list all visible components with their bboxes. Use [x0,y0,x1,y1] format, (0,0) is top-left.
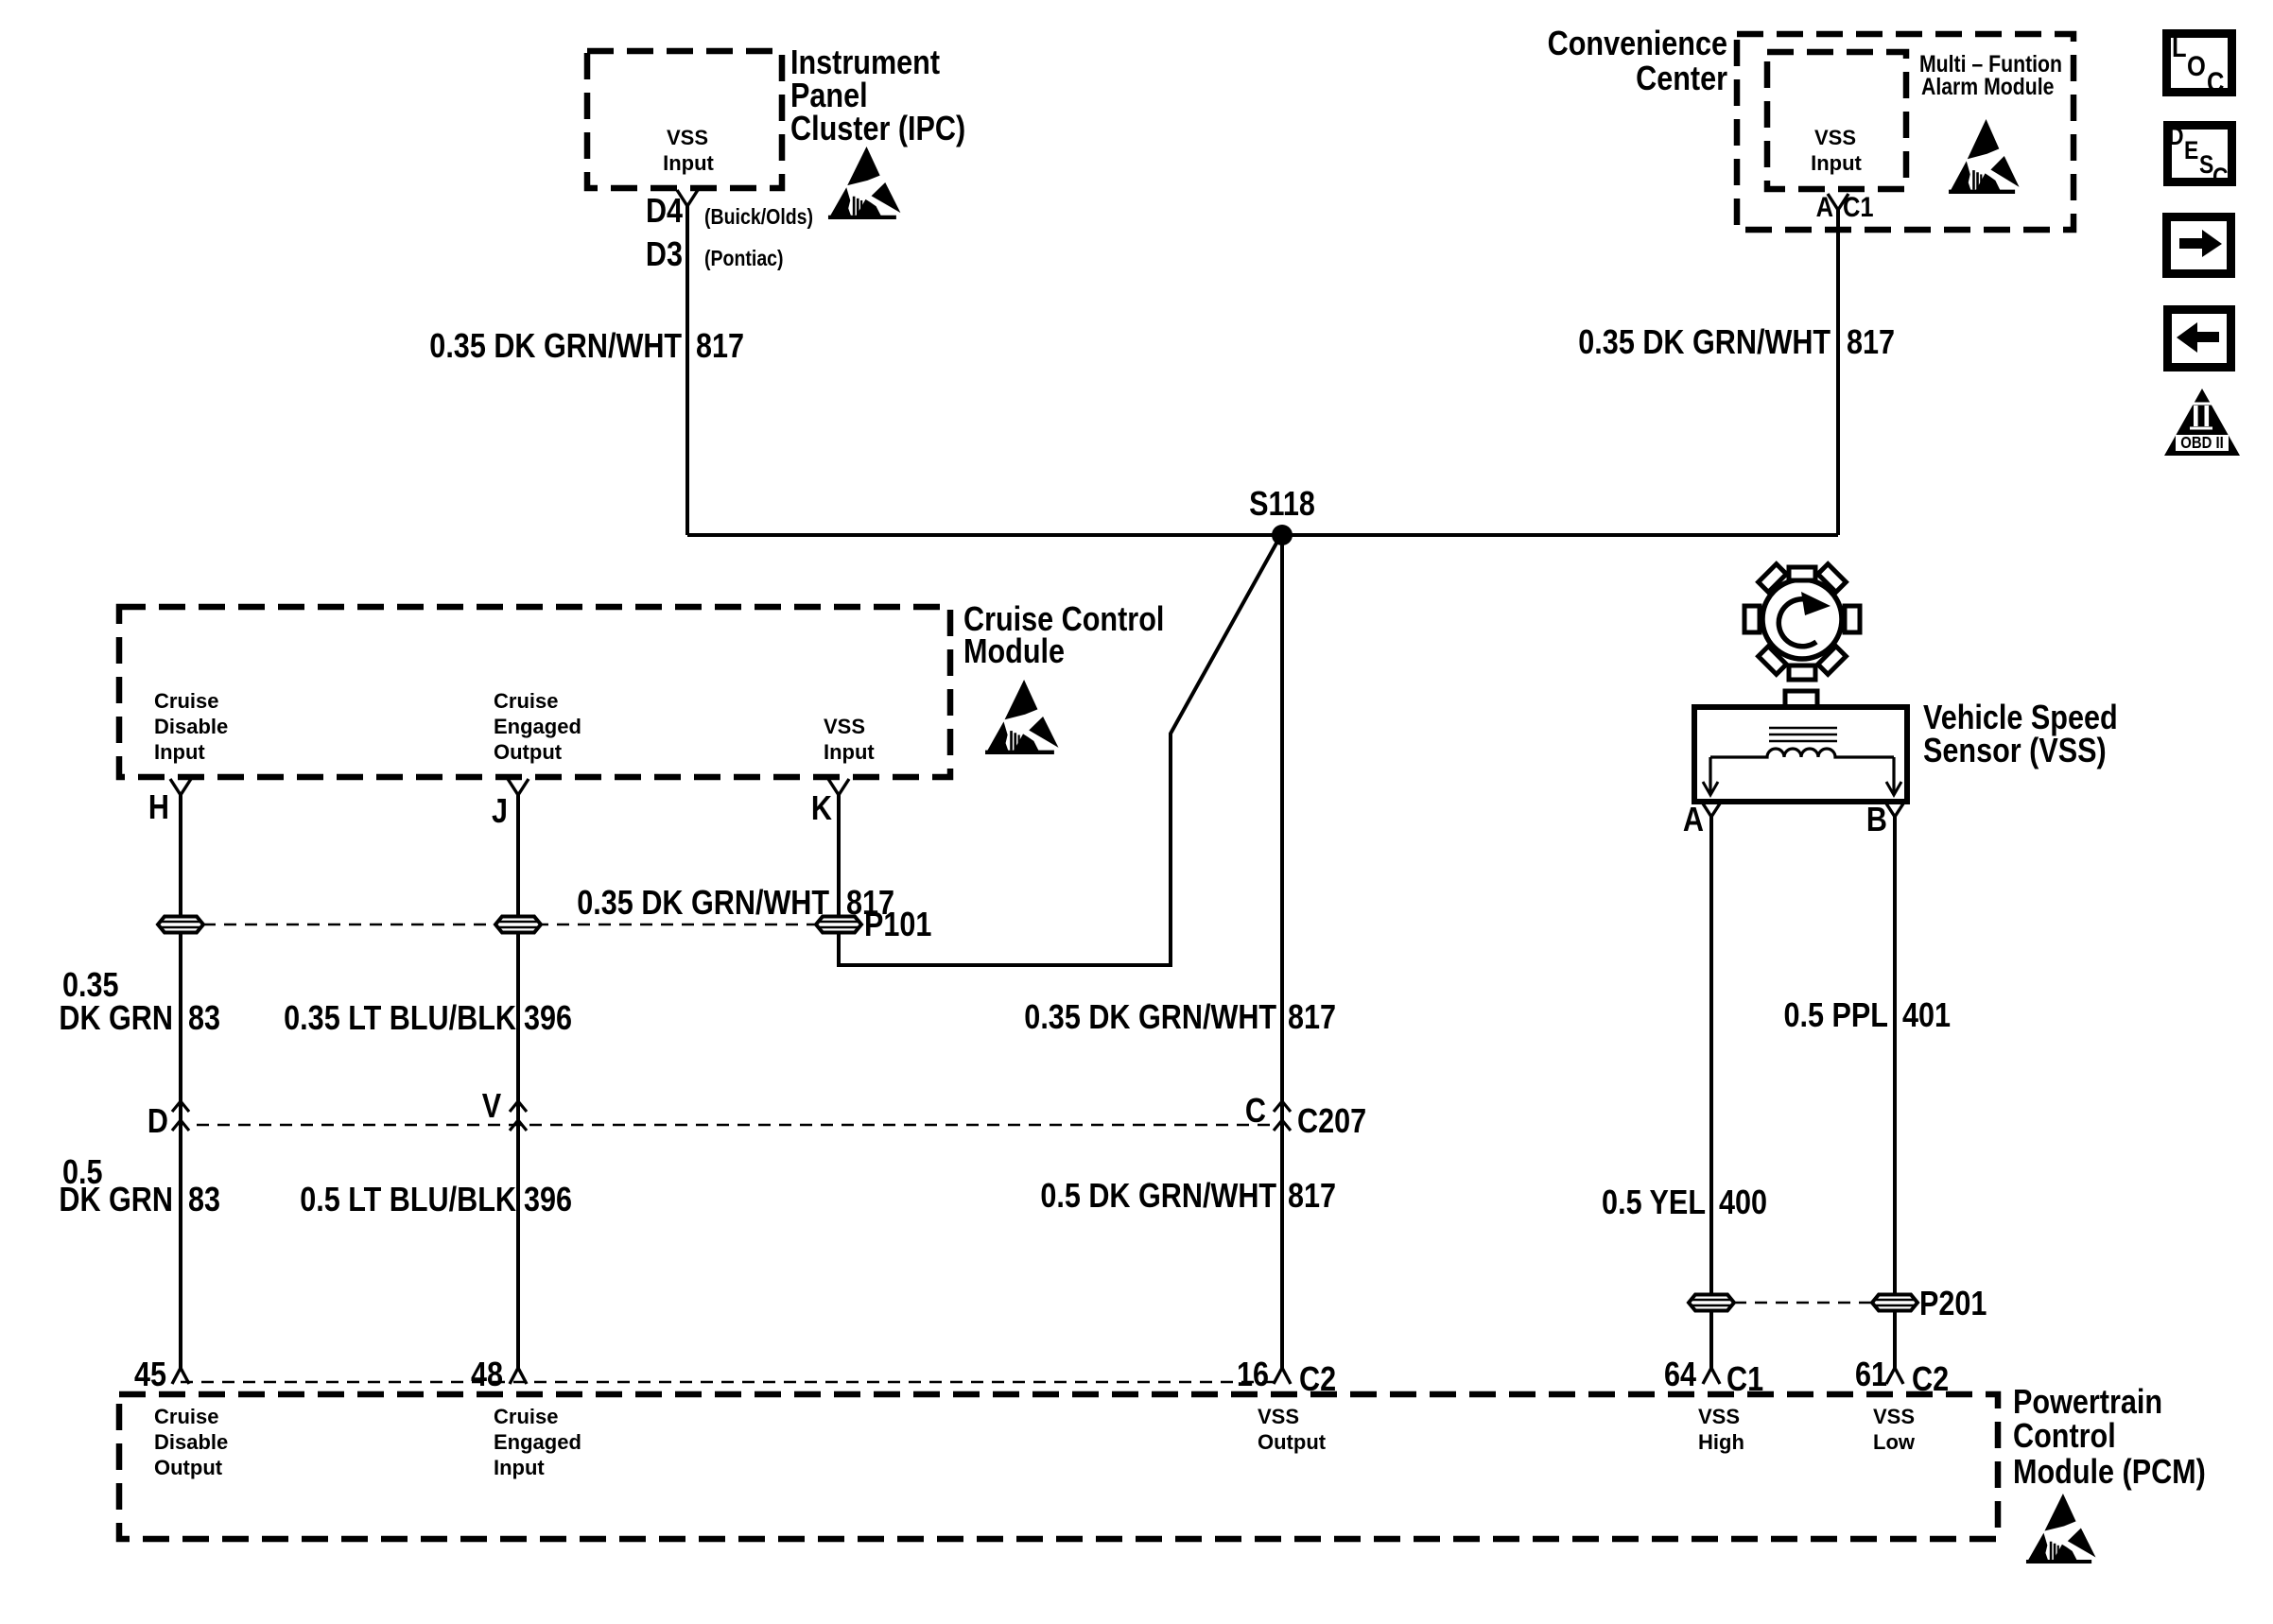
svg-text:Input: Input [824,740,875,764]
svg-text:VSS: VSS [1698,1405,1740,1428]
svg-text:0.35: 0.35 [62,967,119,1005]
svg-text:D: D [2168,122,2184,150]
svg-text:(Buick/Olds): (Buick/Olds) [704,205,813,230]
svg-text:Cruise: Cruise [154,1405,218,1428]
svg-text:Input: Input [494,1456,545,1479]
svg-text:DK GRN: DK GRN [59,1000,173,1038]
svg-text:C: C [2207,66,2224,97]
svg-text:Disable: Disable [154,715,228,738]
svg-text:0.5 PPL: 0.5 PPL [1784,997,1888,1035]
svg-text:C1: C1 [1843,191,1874,222]
svg-text:Center: Center [1636,60,1727,98]
svg-text:400: 400 [1719,1184,1767,1222]
svg-text:V: V [482,1088,502,1126]
svg-text:A: A [1816,191,1833,222]
svg-text:P201: P201 [1919,1286,1987,1323]
svg-text:VSS: VSS [1873,1405,1915,1428]
svg-text:Vehicle Speed: Vehicle Speed [1923,700,2118,737]
svg-text:(Pontiac): (Pontiac) [704,247,784,271]
svg-text:817: 817 [1288,1178,1336,1216]
svg-text:Output: Output [1258,1430,1327,1454]
svg-text:396: 396 [524,1182,572,1219]
svg-text:Panel: Panel [790,78,868,115]
svg-text:Output: Output [154,1456,223,1479]
svg-text:VSS: VSS [824,715,865,738]
svg-text:Alarm Module: Alarm Module [1921,73,2055,99]
svg-text:S: S [2199,150,2213,179]
svg-text:O: O [2187,50,2206,81]
svg-text:45: 45 [134,1356,166,1394]
svg-text:817: 817 [1847,324,1895,362]
svg-text:Disable: Disable [154,1430,228,1454]
svg-text:P101: P101 [864,907,931,944]
svg-text:Output: Output [494,740,563,764]
svg-text:0.35 DK GRN/WHT: 0.35 DK GRN/WHT [1024,999,1276,1037]
svg-text:61: 61 [1855,1356,1887,1394]
svg-text:VSS: VSS [1258,1405,1299,1428]
svg-text:C2: C2 [1912,1361,1949,1399]
svg-text:D3: D3 [646,236,683,274]
svg-text:64: 64 [1664,1356,1696,1394]
svg-text:OBD II: OBD II [2180,434,2223,452]
svg-text:Input: Input [154,740,205,764]
svg-text:C207: C207 [1297,1103,1366,1141]
svg-text:DK GRN: DK GRN [59,1182,173,1219]
svg-text:0.35 DK GRN/WHT: 0.35 DK GRN/WHT [1578,324,1831,362]
svg-text:C: C [1245,1093,1266,1131]
svg-text:Cruise: Cruise [154,689,218,713]
svg-text:817: 817 [696,328,744,366]
svg-text:D: D [147,1103,168,1141]
svg-text:Powertrain: Powertrain [2013,1384,2162,1422]
svg-text:Module: Module [963,633,1065,671]
svg-text:0.5 YEL: 0.5 YEL [1602,1184,1706,1222]
svg-text:Sensor (VSS): Sensor (VSS) [1923,733,2107,770]
svg-text:A: A [1683,802,1704,839]
svg-text:K: K [811,790,832,828]
svg-text:0.35 DK GRN/WHT: 0.35 DK GRN/WHT [577,885,829,923]
svg-text:Instrument: Instrument [790,44,940,82]
svg-text:83: 83 [188,1000,220,1038]
svg-text:D4: D4 [646,193,683,231]
svg-text:Module (PCM): Module (PCM) [2013,1454,2206,1492]
svg-text:Input: Input [663,151,714,175]
svg-text:817: 817 [1288,999,1336,1037]
svg-text:83: 83 [188,1182,220,1219]
svg-text:VSS: VSS [1814,126,1856,149]
svg-text:Cluster (IPC): Cluster (IPC) [790,111,965,148]
svg-text:L: L [2172,31,2187,62]
svg-text:H: H [148,789,169,827]
svg-text:401: 401 [1902,997,1951,1035]
svg-text:16: 16 [1237,1356,1269,1394]
svg-text:Engaged: Engaged [494,715,581,738]
svg-text:0.5 LT BLU/BLK: 0.5 LT BLU/BLK [300,1182,516,1219]
svg-text:C1: C1 [1726,1361,1763,1399]
svg-text:Input: Input [1811,151,1862,175]
svg-text:0.35 DK GRN/WHT: 0.35 DK GRN/WHT [429,328,682,366]
svg-text:Convenience: Convenience [1548,26,1727,63]
svg-text:E: E [2184,136,2198,164]
svg-text:VSS: VSS [667,126,708,149]
svg-text:Engaged: Engaged [494,1430,581,1454]
svg-text:396: 396 [524,1000,572,1038]
svg-text:High: High [1698,1430,1744,1454]
svg-text:C2: C2 [1299,1361,1336,1399]
svg-text:48: 48 [471,1356,503,1394]
svg-text:S118: S118 [1249,486,1315,524]
svg-text:Control: Control [2013,1418,2116,1456]
svg-text:Cruise: Cruise [494,1405,558,1428]
svg-text:C: C [2212,163,2229,191]
svg-text:Low: Low [1873,1430,1916,1454]
svg-text:0.35 LT BLU/BLK: 0.35 LT BLU/BLK [284,1000,516,1038]
svg-text:J: J [492,793,508,831]
svg-text:0.5 DK GRN/WHT: 0.5 DK GRN/WHT [1040,1178,1276,1216]
svg-text:B: B [1866,802,1887,839]
svg-text:Cruise: Cruise [494,689,558,713]
